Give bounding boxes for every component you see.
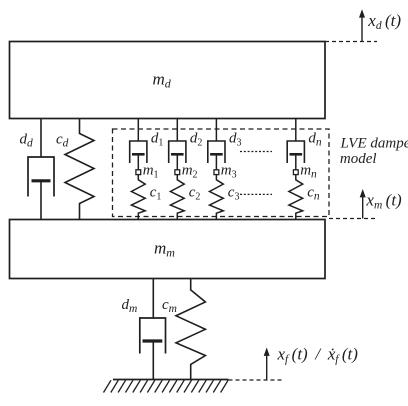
svg-text:c2: c2 xyxy=(189,185,201,203)
svg-text:c3: c3 xyxy=(228,185,240,203)
svg-text:dm: dm xyxy=(122,297,138,315)
svg-text:c1: c1 xyxy=(150,185,162,203)
node mass m_2 (small square) xyxy=(175,170,180,175)
arrow x_f xyxy=(264,348,270,381)
svg-text:m3: m3 xyxy=(221,163,237,181)
svg-text:d1: d1 xyxy=(151,131,164,149)
svg-text:dn: dn xyxy=(308,131,322,149)
annotation: LVE damper model xyxy=(340,135,408,167)
dashed boundary box of LVE damper model xyxy=(113,129,330,217)
svg-text:m1: m1 xyxy=(143,163,159,181)
arrow x_d xyxy=(359,9,365,41)
ground line xyxy=(113,379,229,381)
arrow x_m xyxy=(360,189,366,219)
svg-text:md: md xyxy=(153,70,172,91)
damper d_d (left dashpot between m_d and m_m) xyxy=(28,119,54,220)
spring c_2 xyxy=(170,175,184,220)
ground hatching xyxy=(104,380,229,392)
spring c_3 xyxy=(210,175,224,220)
svg-text:cn: cn xyxy=(307,185,320,203)
mass m_m (lower machine mass block) xyxy=(10,220,326,279)
node mass m_1 (small square) xyxy=(136,170,141,175)
LVE unit 3: damper d_3 xyxy=(208,119,225,170)
svg-text:cm: cm xyxy=(162,297,177,315)
LVE unit n: damper d_n xyxy=(287,119,304,170)
dashed reference line at ground xyxy=(229,379,283,381)
mass m_d (top driven mass block) xyxy=(10,42,326,119)
svg-text:d3: d3 xyxy=(229,131,242,149)
node mass m_3 (small square) xyxy=(214,170,219,175)
spring c_1 xyxy=(131,175,145,220)
dashed reference line at m_m top xyxy=(329,218,378,220)
svg-text:xd (t): xd (t) xyxy=(367,11,401,32)
spring c_d (left spring between m_d and m_m) xyxy=(65,119,94,220)
svg-text:mm: mm xyxy=(154,239,175,260)
svg-text:model: model xyxy=(340,151,377,167)
ellipsis dotted line (damper row) xyxy=(240,151,272,153)
svg-text:cd: cd xyxy=(56,132,69,150)
spring c_m (spring between m_m and ground) xyxy=(176,279,205,380)
node mass m_n (small square) xyxy=(293,170,298,175)
damper d_m (dashpot between m_m and ground) xyxy=(140,279,166,380)
dashed reference line at m_d top xyxy=(325,41,377,43)
svg-text:d2: d2 xyxy=(190,131,203,149)
LVE unit 2: damper d_2 xyxy=(169,119,186,170)
svg-text:mn: mn xyxy=(300,163,317,181)
svg-text:m2: m2 xyxy=(182,163,198,181)
svg-text:xm (t): xm (t) xyxy=(365,191,402,212)
ellipsis dotted line (spring row) xyxy=(240,193,272,195)
svg-text:dd: dd xyxy=(20,132,34,150)
svg-text:LVE damper: LVE damper xyxy=(340,135,408,151)
spring c_n xyxy=(289,175,303,220)
LVE unit 1: damper d_1 xyxy=(130,119,147,170)
svg-text:xf (t) / ẋf (t): xf (t) / ẋf (t) xyxy=(277,345,359,366)
